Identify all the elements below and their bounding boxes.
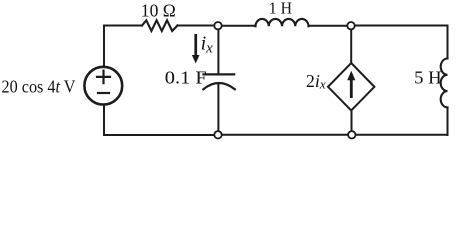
wire top rail resistor to node A [177,25,214,27]
wire capacitor to bottom node [217,84,219,131]
node B open circle top-right [347,22,354,29]
wire node B to diamond [350,29,352,63]
wire bottom rail [104,134,448,136]
svg-text:ix: ix [201,33,214,57]
svg-text:5 H: 5 H [414,67,442,87]
dependent source D diamond [328,63,374,111]
arrow ix current [192,34,200,64]
wire top rail node A to inductor [222,25,256,27]
svg-text:2ix: 2ix [306,71,326,92]
resistor R 10ohm zigzag [142,20,177,31]
plus sign of source [97,71,110,84]
wire diamond to bottom node [351,111,353,132]
wire top rail inductor to node B [309,25,348,27]
voltage source VS circle [84,67,122,105]
wire node A to capacitor [217,29,219,73]
capacitor C top plate [204,73,235,75]
inductor L1 1H coil [256,19,309,26]
svg-text:1 H: 1 H [269,0,292,18]
node C open circle bottom-left [214,131,221,138]
wire left rail upper [103,26,105,67]
capacitor C bottom curved plate [203,83,235,89]
wire right rail lower [447,107,449,135]
node A open circle top-left [214,22,221,29]
arrow of dependent source [347,71,355,98]
wire top rail left segment [104,25,142,27]
wire right rail upper [447,26,449,59]
svg-text:20 cos 4t V: 20 cos 4t V [2,76,76,96]
node D open circle bottom-right [348,131,355,138]
minus sign of source [98,92,109,94]
svg-text:0.1 F: 0.1 F [165,68,207,88]
inductor L2 5H coil [441,59,448,108]
wire top rail node B to right corner [355,25,448,27]
wire left rail lower [103,106,105,135]
svg-text:10 Ω: 10 Ω [141,0,176,20]
